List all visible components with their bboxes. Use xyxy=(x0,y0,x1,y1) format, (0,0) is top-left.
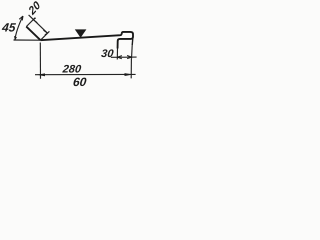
level mark triangle xyxy=(75,29,87,37)
angle dimension arc 45 xyxy=(15,16,23,40)
dim 280: arrow right xyxy=(125,73,134,76)
dim 20: arrow lower xyxy=(43,30,47,35)
dim 20: dimension line xyxy=(29,15,48,33)
profile main line with right drip curl xyxy=(41,32,134,49)
dim 20: extension line upper xyxy=(26,18,35,27)
dim 30: arrow right (outside, pointing left) xyxy=(127,56,132,59)
dim 280: dimension line xyxy=(35,73,136,75)
dim 30: dimension line xyxy=(111,56,137,58)
dim 280: right extension line xyxy=(130,59,132,79)
arc arrow top xyxy=(19,16,23,20)
svg-text:30: 30 xyxy=(101,48,115,60)
svg-text:45: 45 xyxy=(0,20,16,34)
dim 20: extension line lower xyxy=(41,31,50,40)
dim 280: left extension line xyxy=(39,43,41,79)
angle reference line xyxy=(14,39,41,41)
dim 30: right extension (curl side down) xyxy=(131,37,134,46)
arc arrow bottom xyxy=(14,36,17,41)
dim 280: arrow left xyxy=(37,73,45,76)
dim 20: arrow upper xyxy=(33,18,37,23)
dim 30: left extension / drip leg continuation xyxy=(116,49,118,60)
svg-text:280: 280 xyxy=(61,64,82,76)
dim 30: arrow left (outside, pointing right) xyxy=(117,56,122,59)
profile left lip bent 45 deg xyxy=(26,27,40,41)
svg-text:60: 60 xyxy=(72,75,87,89)
